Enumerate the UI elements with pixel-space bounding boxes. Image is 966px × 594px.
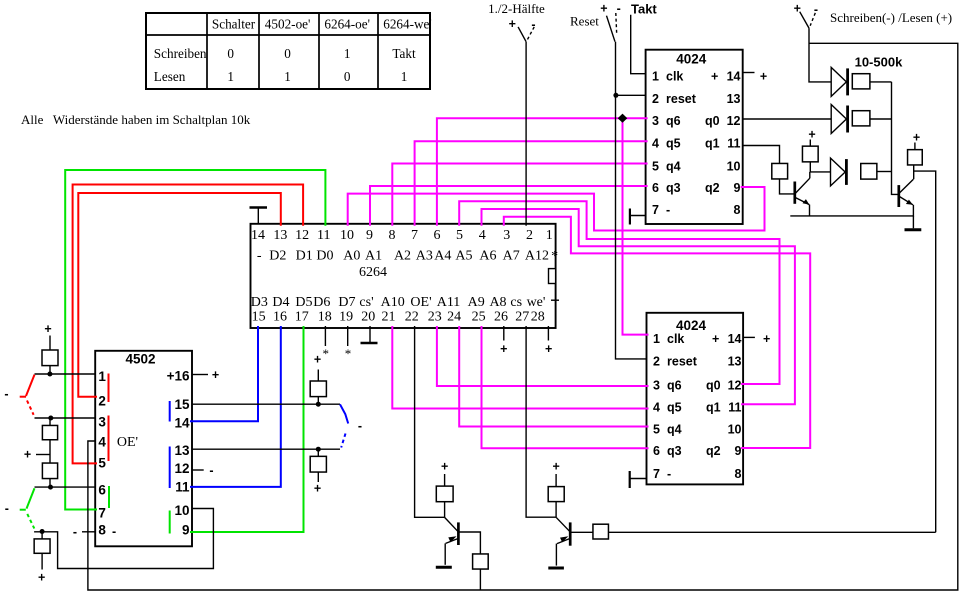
svg-text:A12: A12 [525, 248, 549, 263]
svg-text:Schreiben: Schreiben [154, 46, 207, 61]
wire A11: U1 pin23 to U4 q6 pin3 [437, 326, 649, 386]
svg-text:1: 1 [546, 228, 553, 243]
wire mid + stub [36, 454, 50, 456]
wire R5 top stub [317, 370, 319, 382]
wire R4 bottom stub [41, 553, 43, 569]
svg-text:24: 24 [447, 309, 461, 324]
svg-text:+: + [552, 459, 559, 473]
diode D2 [831, 105, 846, 134]
svg-text:-: - [257, 248, 262, 263]
svg-text:q3: q3 [666, 181, 681, 195]
svg-text:-: - [358, 419, 362, 433]
svg-text:4: 4 [98, 435, 106, 450]
Q3 emitter diagonal [446, 539, 458, 544]
svg-text:-: - [666, 203, 670, 217]
svg-text:6: 6 [98, 483, 106, 498]
Q3 collector diagonal [445, 517, 458, 531]
resistor R4 [34, 539, 50, 553]
svg-text:1: 1 [227, 69, 234, 84]
svg-text:reset: reset [666, 92, 697, 106]
svg-text:12: 12 [728, 378, 742, 392]
svg-text:Reset: Reset [570, 14, 599, 29]
junction Reset node [613, 93, 618, 98]
svg-text:reset: reset [667, 355, 698, 369]
svg-text:20: 20 [361, 309, 375, 324]
junction node pin1/R1 [47, 372, 52, 377]
wire A2: U1 pin8 to U3 q4 pin5 [392, 164, 647, 226]
svg-text:+: + [212, 368, 219, 382]
svg-text:13: 13 [174, 443, 190, 458]
wire U2 pin6 [35, 486, 96, 488]
wire R6 stem [317, 449, 319, 456]
wire Reset branch to U3 pin2 [616, 94, 646, 96]
svg-text:11: 11 [727, 137, 740, 151]
wire R16 to Q2 collector line [608, 531, 935, 533]
wire U1 pin28 stub [547, 326, 549, 341]
wire R3 to pin6 node [49, 479, 51, 488]
table column line 4 [377, 13, 379, 89]
wire R1 to pin1 node [49, 366, 51, 374]
transistor Q1 base bar [793, 182, 796, 204]
resistor R8 [852, 111, 870, 126]
resistor R3 [42, 463, 57, 479]
Q1 emitter diagonal [795, 198, 809, 205]
svg-text:Schalter: Schalter [212, 17, 256, 32]
svg-text:*: * [345, 346, 352, 361]
svg-text:4: 4 [653, 401, 660, 415]
svg-text:12: 12 [174, 461, 189, 476]
svg-text:A11: A11 [437, 295, 461, 310]
U2 red bar pins 1-2 [108, 374, 110, 403]
svg-text:Takt: Takt [631, 1, 657, 16]
wire D5: U1 pin17 to U2 pin9 (green) [190, 326, 304, 532]
wire A8: U1 pin25 to U4 q3 pin6 [482, 326, 649, 448]
resistor R9 [772, 163, 788, 179]
U2 green bar pins 6-7 [108, 486, 110, 508]
svg-text:*: * [322, 346, 329, 361]
IC U1 6264 SRAM body [251, 224, 556, 328]
svg-text:6264-we': 6264-we' [383, 17, 432, 32]
svg-text:5: 5 [652, 159, 659, 173]
wire Q4 + stub [555, 474, 557, 487]
svg-text:5: 5 [653, 422, 660, 436]
wire R6 bottom stub [317, 472, 319, 482]
svg-text:A4: A4 [434, 248, 451, 263]
junction node pin3/R2 [48, 416, 53, 421]
svg-text:6264-oe': 6264-oe' [324, 17, 370, 32]
wire U3 pin7 to bar [630, 215, 646, 217]
wire U4 pin14 supply stub [743, 336, 755, 338]
wire Takt to U3 clk pin1 [631, 15, 646, 74]
switch SW4 solid lever [518, 27, 526, 42]
U2 green bar pins 10-9 [169, 511, 171, 534]
wire U4 pin7 to bar [630, 478, 647, 480]
svg-text:11: 11 [728, 401, 741, 415]
svg-text:6: 6 [653, 444, 660, 458]
svg-text:q1: q1 [706, 401, 721, 415]
svg-text:D5: D5 [295, 295, 312, 310]
Q2 emitter arrow [906, 200, 913, 205]
wire U1 pin18 stub [324, 326, 326, 346]
wire Q1 collector riser [809, 172, 811, 178]
svg-text:13: 13 [727, 92, 741, 106]
Q2 collector diagonal [899, 179, 913, 193]
diode D1 [831, 67, 846, 96]
switch SW2 stub (green) [20, 509, 26, 511]
svg-text:clk: clk [667, 332, 684, 346]
switch SW4 dashed lever [527, 27, 535, 41]
svg-text:-: - [112, 525, 116, 539]
svg-text:1: 1 [344, 46, 351, 61]
IC U2 4502 body [95, 351, 192, 547]
wire R2-R3 link [49, 440, 51, 463]
svg-text:A1: A1 [365, 248, 382, 263]
wire A12: SW4 to U1 pin2 [525, 42, 527, 226]
table column line 3 [318, 13, 320, 89]
svg-text:A8: A8 [489, 295, 506, 310]
svg-text:Schreiben(-) /Lesen (+): Schreiben(-) /Lesen (+) [830, 10, 952, 25]
svg-text:23: 23 [428, 309, 442, 324]
svg-text:3: 3 [652, 114, 659, 128]
svg-text:15: 15 [252, 309, 266, 324]
Q2 emitter diagonal [899, 197, 913, 205]
svg-text:6264: 6264 [359, 265, 387, 280]
svg-text:+: + [711, 70, 718, 84]
wire A6: U1 pin4 to U4 q1 pin11 [482, 209, 795, 404]
wire U1 we' pin27 to Q4 [526, 326, 556, 517]
svg-text:15: 15 [174, 397, 190, 412]
resistor R16 [593, 524, 609, 539]
wire U2 pin15 [192, 403, 340, 405]
wire R2 stem [49, 418, 51, 426]
wire U3 pin14 supply stub [743, 72, 755, 74]
svg-text:5: 5 [98, 456, 106, 471]
svg-text:+: + [760, 69, 767, 83]
svg-text:5: 5 [456, 228, 463, 243]
svg-text:4502: 4502 [125, 352, 155, 367]
svg-text:7: 7 [653, 467, 660, 481]
resistor R6 [310, 456, 326, 472]
wire Q3 + stub [444, 474, 446, 486]
svg-text:27: 27 [515, 309, 529, 324]
svg-text:OE': OE' [117, 435, 138, 450]
svg-text:+: + [441, 459, 448, 473]
svg-text:q0: q0 [706, 378, 721, 392]
svg-text:+: + [763, 332, 770, 346]
wire U1 pin26 stub [503, 326, 505, 341]
svg-text:14: 14 [727, 70, 741, 84]
svg-text:-: - [617, 2, 621, 16]
svg-text:0: 0 [284, 46, 291, 61]
svg-text:28: 28 [531, 309, 545, 324]
wire D0: U2 pin7 to U1 pin11 (green) [65, 170, 325, 510]
wire node to riser [34, 509, 213, 569]
wire U3 q0 pin12 to diode D2 [743, 118, 832, 120]
svg-text:6: 6 [652, 181, 659, 195]
wire Q3 base to R14 [459, 532, 480, 554]
resistor R2 [42, 425, 57, 439]
junction node SW2/R4 [40, 529, 45, 534]
svg-text:clk: clk [666, 70, 683, 84]
svg-text:q1: q1 [705, 137, 720, 151]
svg-text:9: 9 [734, 181, 741, 195]
svg-text:+: + [314, 482, 321, 496]
svg-text:q2: q2 [705, 181, 720, 195]
wire D3: U1 pin15 to U2 pin14 (blue) [190, 326, 258, 421]
wire R4 stem [41, 532, 43, 539]
junction node pin15/R5 [316, 402, 321, 407]
table column line 2 [258, 13, 260, 89]
junction node pin6/R3 [48, 485, 53, 490]
svg-text:1: 1 [98, 369, 106, 384]
svg-text:3: 3 [98, 415, 106, 430]
svg-text:11: 11 [317, 228, 330, 243]
wire A7: U1 pin3 to U4 q2 pin9 [504, 217, 810, 448]
svg-text:+: + [500, 342, 507, 356]
resistor R1 [42, 350, 58, 366]
wire U2 pin8 stub [82, 531, 95, 533]
svg-text:2: 2 [526, 228, 533, 243]
svg-text:8: 8 [735, 467, 742, 481]
svg-text:A6: A6 [479, 248, 496, 263]
wire Reset: SW5 to U3 pin2 and U4 pin2 [616, 42, 647, 359]
Q4 collector diagonal [556, 517, 570, 531]
svg-text:7: 7 [652, 203, 659, 217]
svg-text:9: 9 [182, 523, 190, 538]
svg-text:q4: q4 [666, 159, 681, 173]
svg-text:A10: A10 [381, 295, 405, 310]
svg-text:q0: q0 [705, 114, 720, 128]
switch SW1 stub (red) [20, 396, 26, 398]
svg-text:2: 2 [653, 355, 660, 369]
svg-text:4024: 4024 [676, 318, 707, 333]
svg-text:4: 4 [652, 137, 659, 151]
wire R14 to bottom rail [479, 569, 481, 590]
svg-text:+: + [712, 332, 719, 346]
wire U1 pin19 stub [347, 326, 349, 346]
wire A4: U1 pin6 to U3 q6 pin3 [437, 118, 648, 226]
svg-text:4: 4 [479, 228, 486, 243]
wire R13 stem [444, 502, 446, 518]
svg-text:10: 10 [340, 228, 354, 243]
resistor R12 [908, 150, 923, 165]
svg-text:21: 21 [382, 309, 396, 324]
junction U3-q6/U4-clk (diamond) [618, 114, 628, 123]
svg-text:3: 3 [653, 378, 660, 392]
wire R7 to bus [870, 81, 892, 83]
resistor R10 [802, 146, 818, 162]
U2 blue bar pins 13-11 [169, 447, 171, 489]
wire Q2 collector to right drop [914, 171, 936, 532]
svg-text:22: 22 [405, 309, 419, 324]
U1 pin-1 inner box [549, 269, 556, 284]
svg-text:16: 16 [273, 309, 287, 324]
wire U1 pin20 cs' ground stem [369, 326, 371, 342]
switch SW2 solid lever (green) [27, 488, 35, 508]
IC U4 4024 counter body [647, 313, 744, 485]
wire U1 OE' pin22 to Q3 [415, 326, 445, 517]
svg-text:14: 14 [728, 332, 742, 346]
svg-text:we': we' [527, 295, 546, 310]
svg-text:7: 7 [98, 506, 106, 521]
wire A0: U1 pin10 to U3 q2 pin9 [348, 187, 765, 231]
Q4 emitter diagonal [557, 539, 570, 544]
svg-text:26: 26 [494, 309, 508, 324]
svg-text:3: 3 [503, 228, 510, 243]
wire R11 to bus [877, 171, 892, 173]
svg-text:D3: D3 [251, 295, 268, 310]
switch SW5 solid lever [607, 16, 616, 42]
svg-text:D7: D7 [338, 295, 355, 310]
ground bar at Q4 [548, 567, 564, 570]
svg-text:25: 25 [472, 309, 486, 324]
U3 pin 7 ground bar [629, 209, 631, 225]
svg-text:8: 8 [98, 523, 106, 538]
svg-text:A2: A2 [394, 248, 411, 263]
ground bar at Q3 [436, 566, 452, 569]
svg-text:+: + [545, 342, 552, 356]
svg-text:13: 13 [728, 355, 742, 369]
Q1 emitter arrow [803, 199, 810, 205]
switch SW2 dashed lever (green) [27, 514, 34, 529]
svg-text:D0: D0 [316, 248, 333, 263]
switch SW6 dashed lever [810, 13, 815, 26]
svg-text:0: 0 [227, 46, 234, 61]
svg-text:0: 0 [344, 69, 351, 84]
svg-text:1: 1 [284, 69, 291, 84]
wire Q2 emitter drop [912, 205, 914, 217]
switch SW5 dashed lever [615, 13, 618, 34]
svg-text:1: 1 [652, 70, 659, 84]
svg-text:D1: D1 [296, 248, 313, 263]
svg-text:Takt: Takt [392, 46, 416, 61]
svg-text:q4: q4 [667, 422, 682, 436]
svg-text:-: - [4, 387, 8, 401]
svg-text:10: 10 [728, 422, 742, 436]
svg-text:A9: A9 [468, 295, 485, 310]
svg-text:+: + [509, 17, 516, 31]
wire Q1 emitter drop [809, 205, 811, 216]
wire R15 stem [555, 502, 557, 518]
resistor R13 [436, 486, 453, 502]
svg-text:+: + [38, 570, 45, 584]
svg-text:13: 13 [273, 228, 287, 243]
svg-text:4502-oe': 4502-oe' [265, 17, 311, 32]
svg-text:1./2-Hälfte: 1./2-Hälfte [488, 1, 545, 16]
wire D1: U2 pin5 to U1 pin12 (red) [73, 185, 304, 464]
svg-text:q5: q5 [667, 401, 682, 415]
transistor Q2 base bar [897, 185, 900, 207]
table: truth table frame [146, 13, 430, 89]
svg-text:*: * [551, 249, 558, 264]
resistor R5 [310, 381, 326, 397]
svg-text:10: 10 [174, 503, 189, 518]
wire R8 to bus [870, 118, 892, 120]
wire U1 pin14 to supply bar [257, 208, 259, 224]
wire U2 pin13 [192, 448, 340, 450]
transistor Q4 base bar [569, 522, 572, 545]
svg-text:+: + [794, 2, 801, 16]
svg-text:1: 1 [401, 69, 408, 84]
wire U3 q1 pin11 to R9 [743, 146, 780, 164]
wire R12 stem up [914, 143, 916, 150]
resistor R15 [548, 487, 564, 502]
wire D4: U1 pin16 to U2 pin11 (blue) [190, 326, 281, 487]
U1 pin 28 we'-row edge tick [551, 299, 559, 301]
switch SW3 dashed lever (blue) [341, 434, 345, 448]
svg-text:14: 14 [251, 228, 265, 243]
wire Q2 collector riser [913, 165, 915, 179]
svg-text:+: + [600, 1, 607, 15]
ground bar at Q2 [905, 228, 922, 231]
table header row line [146, 34, 430, 36]
svg-text:8: 8 [734, 203, 741, 217]
svg-text:A0: A0 [343, 248, 360, 263]
svg-text:19: 19 [339, 309, 353, 324]
table column line 1 [206, 13, 208, 89]
wire Q4 emitter drop [555, 544, 557, 566]
svg-text:9: 9 [735, 444, 742, 458]
svg-text:A5: A5 [455, 248, 472, 263]
svg-text:+: + [24, 448, 31, 462]
wire R5 to pin15 node [317, 397, 319, 405]
wire D2: U2 pin2 to U1 pin13 (red) [78, 193, 280, 397]
junction node pin13/R6 [316, 447, 321, 452]
wire Q4 base to R16 [571, 531, 593, 533]
svg-text:9: 9 [366, 228, 373, 243]
resistor R14 [473, 554, 489, 569]
wire U2 pin12 stub [192, 469, 204, 471]
svg-text:2: 2 [98, 394, 106, 409]
Q4 emitter arrow [560, 536, 568, 542]
svg-text:cs': cs' [359, 295, 373, 310]
switch SW6 solid lever [800, 12, 809, 28]
wire R9 to Q1 base [780, 179, 794, 194]
switch SW1 dashed lever (red) [27, 401, 34, 415]
svg-text:D2: D2 [269, 248, 286, 263]
switch SW3 solid lever (blue) [340, 404, 348, 423]
svg-text:q6: q6 [667, 378, 682, 392]
wire Q3 emitter drop [444, 543, 446, 564]
wire R10 stem down [809, 162, 811, 172]
svg-text:7: 7 [411, 228, 418, 243]
svg-text:14: 14 [174, 416, 190, 431]
switch SW1 solid lever (red) [26, 375, 35, 396]
svg-text:12: 12 [295, 228, 309, 243]
svg-text:+: + [808, 128, 815, 142]
svg-text:q3: q3 [667, 444, 682, 458]
wire A9: U1 pin24 to U4 q4 pin5 [459, 326, 648, 427]
svg-text:6: 6 [434, 228, 441, 243]
Q1 collector diagonal [795, 178, 810, 193]
svg-text:18: 18 [318, 309, 332, 324]
ground bar at U1 cs' [361, 342, 378, 345]
svg-text:11: 11 [175, 480, 190, 495]
wire A10: U1 pin21 to U4 q5 pin4 [392, 326, 648, 409]
wire U2 pin3 [35, 417, 96, 419]
svg-text:A3: A3 [416, 248, 433, 263]
svg-text:q6: q6 [666, 114, 681, 128]
svg-text:A7: A7 [503, 248, 520, 263]
svg-text:+: + [314, 352, 321, 366]
svg-text:1: 1 [653, 332, 660, 346]
svg-text:q2: q2 [706, 444, 721, 458]
svg-text:-: - [73, 525, 77, 539]
svg-text:12: 12 [727, 114, 741, 128]
wire U3 q6 to U4 clk pin1 [623, 118, 649, 334]
svg-text:D6: D6 [313, 295, 330, 310]
transistor Q3 base bar [457, 522, 460, 545]
